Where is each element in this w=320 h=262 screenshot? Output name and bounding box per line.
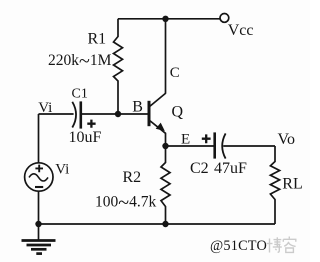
svg-text:Vi: Vi [55,162,69,178]
svg-text:C: C [170,65,180,81]
svg-text:Q: Q [172,104,184,121]
svg-text:Vo: Vo [278,131,296,148]
svg-text:B: B [132,98,143,115]
svg-text:E: E [181,132,190,148]
svg-text:R1: R1 [88,31,107,48]
svg-text:C2: C2 [190,160,209,177]
svg-text:@51CTO: @51CTO [210,238,267,254]
svg-text:Vcc: Vcc [228,22,254,39]
svg-text:47uF: 47uF [214,160,247,177]
svg-text:C1: C1 [72,87,88,102]
svg-text:220k~1M: 220k~1M [48,50,112,72]
svg-text:Vi: Vi [38,100,52,116]
svg-text:10uF: 10uF [69,129,102,146]
svg-text:100~4.7k: 100~4.7k [95,192,156,214]
svg-text:R2: R2 [123,169,142,186]
svg-text:RL: RL [282,176,302,193]
